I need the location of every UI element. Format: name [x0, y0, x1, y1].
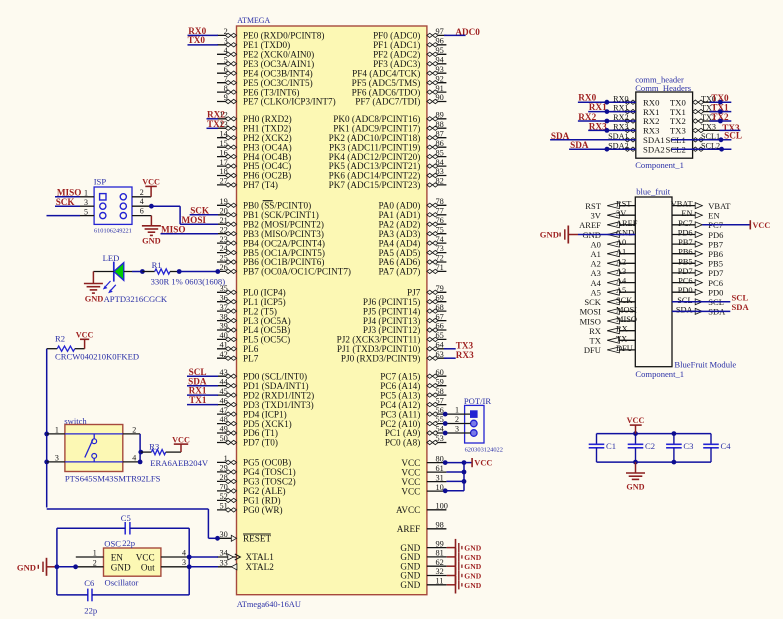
junction dot: [462, 479, 467, 484]
svg-text:98: 98: [436, 521, 444, 530]
IC U1 right pin 79 PJ7: [407, 284, 446, 298]
svg-text:C4: C4: [721, 441, 732, 451]
junction dot R3: [138, 450, 143, 455]
switch S1 PTS645SM43SMTR92LFS body: [64, 416, 160, 484]
svg-text:PE4 (OC3B/INT4): PE4 (OC3B/INT4): [243, 68, 313, 78]
svg-text:68: 68: [436, 303, 444, 312]
IC U1 right pin 63 PJ0: [341, 350, 446, 364]
svg-text:8: 8: [224, 84, 228, 93]
svg-text:ATMEGA: ATMEGA: [237, 16, 270, 25]
junction dot: [718, 109, 723, 114]
IC U1 left pin 27 PH7: [217, 177, 278, 191]
comm_header left pin RX0: [610, 94, 660, 107]
svg-text:RX2: RX2: [207, 109, 225, 119]
IC U1 ATmega640-16AU body: [237, 16, 427, 609]
ground at pin 81: [447, 548, 482, 565]
svg-text:RX: RX: [589, 326, 601, 336]
svg-text:4: 4: [140, 197, 144, 206]
IC U1 right pin 68 PJ5: [363, 303, 447, 317]
wire SCL1: [671, 139, 731, 141]
IC U1 left pin 13 PH1: [217, 120, 291, 133]
IC U1 pin 100 AVCC: [396, 502, 448, 516]
svg-text:PJ0 (RXD3/PCINT9): PJ0 (RXD3/PCINT9): [341, 353, 420, 363]
svg-text:38: 38: [220, 312, 228, 321]
svg-text:PC3 (A11): PC3 (A11): [381, 409, 421, 419]
svg-text:GND: GND: [142, 236, 161, 245]
wire reset net to pin 30: [47, 509, 218, 538]
capacitor C6 22p: [84, 578, 97, 616]
junction dot: [443, 412, 448, 417]
svg-text:TX3: TX3: [701, 123, 716, 132]
svg-text:63: 63: [436, 350, 444, 359]
IC U1 left pin 21 PB2: [217, 216, 324, 230]
comm_header left pin SDA2: [608, 141, 665, 154]
IC U1 right pin 31 VCC: [401, 473, 446, 487]
IC U1 left pin 14 PH2: [217, 129, 292, 143]
svg-text:28: 28: [220, 473, 228, 482]
IC U1 left pin 5 PE3: [217, 56, 314, 70]
junction dot: [672, 431, 677, 436]
svg-text:PD7: PD7: [708, 268, 723, 278]
svg-text:PA3 (AD3): PA3 (AD3): [379, 229, 421, 239]
svg-text:PA7 (AD7): PA7 (AD7): [379, 267, 421, 277]
junction dot: [605, 147, 610, 152]
IC U1 right pin 74 PA4: [379, 235, 447, 249]
svg-text:XTAL2: XTAL2: [246, 562, 275, 572]
junction dot pin4: [138, 460, 143, 465]
wire blue_fruit SDA: [672, 310, 730, 312]
power VCC at R3: [172, 435, 190, 452]
blue_fruit right pin PC6: [672, 277, 723, 288]
svg-text:42: 42: [220, 350, 228, 359]
svg-text:RX1: RX1: [189, 386, 207, 396]
svg-text:51: 51: [220, 502, 228, 511]
IC U1 left pin 9 PE7: [217, 93, 336, 107]
wire to XTAL2: [189, 566, 218, 568]
svg-text:44: 44: [220, 377, 229, 386]
svg-text:25: 25: [220, 254, 228, 263]
IC U1 left pin 29 PG4: [217, 464, 296, 478]
capacitor C4: [703, 434, 731, 463]
wire SDA to pin 44: [187, 385, 218, 387]
wire pin 64 TX3: [444, 348, 456, 350]
IC U1 pin 30 RESET: [217, 530, 271, 544]
wire SCK to pin 20: [190, 214, 218, 216]
capacitor C1: [589, 434, 616, 463]
svg-text:46: 46: [220, 396, 228, 405]
svg-text:VCC: VCC: [627, 416, 645, 425]
wire TX0 to pin 3: [188, 44, 219, 46]
IC U1 left pin 25 PB6: [217, 254, 324, 268]
net label MOSI at pin 21: [182, 215, 207, 225]
comm_header right pin TX0: [670, 94, 720, 107]
svg-text:SCK: SCK: [56, 197, 76, 207]
svg-text:72: 72: [436, 254, 444, 263]
IC U1 pin 62 GND: [400, 558, 446, 572]
svg-text:PD4 (ICP1): PD4 (ICP1): [243, 409, 287, 419]
power VCC at caps: [627, 416, 645, 433]
wire SDA1: [550, 139, 636, 141]
capacitor C5 22p: [121, 513, 135, 548]
ISP pin 2 stub: [132, 188, 151, 197]
blue_fruit right pin VBAT: [671, 200, 732, 211]
svg-text:96: 96: [436, 37, 444, 46]
blue_fruit right pin SCL: [672, 296, 724, 307]
svg-text:RX1: RX1: [589, 102, 607, 112]
comm_header right pin TX1: [670, 104, 720, 117]
svg-text:95: 95: [436, 46, 444, 55]
svg-text:29: 29: [220, 464, 228, 473]
blue_fruit left pin SCK: [584, 296, 635, 307]
svg-text:9: 9: [224, 93, 228, 102]
svg-text:70: 70: [220, 483, 228, 492]
svg-text:PE2 (XCK0/AIN0): PE2 (XCK0/AIN0): [243, 50, 314, 60]
svg-text:VCC: VCC: [474, 459, 492, 468]
svg-text:64: 64: [436, 341, 445, 350]
svg-text:PK7 (ADC15/PCINT23): PK7 (ADC15/PCINT23): [329, 180, 421, 190]
svg-text:330R 1% 0603(1608): 330R 1% 0603(1608): [151, 276, 226, 286]
svg-text:83: 83: [436, 167, 444, 176]
wire TX1 to pin 46: [187, 404, 218, 406]
svg-text:PE7 (CLKO/ICP3/INT7): PE7 (CLKO/ICP3/INT7): [243, 97, 336, 107]
svg-text:PK3 (ADC11/PCINT19): PK3 (ADC11/PCINT19): [329, 142, 420, 152]
wire RX2: [578, 120, 636, 122]
svg-text:14: 14: [220, 129, 229, 138]
svg-text:3: 3: [55, 454, 59, 463]
svg-text:PG4 (TOSC1): PG4 (TOSC1): [243, 467, 296, 477]
svg-text:79: 79: [436, 284, 444, 293]
svg-text:PB1 (SCK/PCINT1): PB1 (SCK/PCINT1): [243, 210, 319, 220]
svg-text:30: 30: [220, 530, 228, 539]
blue_fruit left pin A3: [591, 267, 636, 278]
comm_header left pin SDA1: [608, 132, 665, 145]
svg-text:GND: GND: [17, 562, 36, 572]
svg-text:PD0 (SCL/INT0): PD0 (SCL/INT0): [243, 371, 307, 381]
svg-text:85: 85: [436, 148, 444, 157]
IC U1 right pin 69 PJ6: [363, 293, 447, 307]
IC U1 right pin 88 PK1: [333, 120, 446, 133]
wire VCC pin 61: [446, 471, 464, 473]
svg-text:94: 94: [436, 56, 445, 65]
svg-text:93: 93: [436, 65, 444, 74]
svg-text:PL2 (T5): PL2 (T5): [243, 306, 277, 316]
svg-text:2: 2: [132, 426, 136, 435]
junction dot: [443, 488, 448, 493]
svg-text:SCL: SCL: [189, 367, 207, 377]
svg-text:PD7 (T0): PD7 (T0): [243, 438, 278, 448]
switch pin 4 stub: [123, 454, 140, 463]
ISP pin 6 stub: [132, 207, 151, 216]
svg-text:3: 3: [455, 425, 459, 434]
comm_header right pin TX3: [670, 123, 720, 136]
svg-text:71: 71: [436, 263, 444, 272]
blue_fruit left pin TX: [590, 334, 636, 345]
junction dot: [719, 147, 724, 152]
blue_fruit left pin GND: [582, 229, 635, 240]
wire to XTAL1: [189, 556, 218, 558]
wire RX0: [578, 101, 636, 103]
svg-text:PC0 (A8): PC0 (A8): [385, 438, 420, 448]
svg-text:A0: A0: [616, 238, 626, 247]
svg-text:SDA2: SDA2: [643, 144, 665, 154]
svg-text:TX2: TX2: [207, 119, 225, 129]
svg-text:A2: A2: [591, 259, 601, 269]
svg-text:AREF: AREF: [397, 524, 421, 534]
IC U1 left pin 8 PE6: [217, 84, 299, 98]
IC U1 right pin 64 PJ1: [337, 341, 447, 355]
IC U1 left pin 50 PD7: [217, 434, 278, 448]
blue_fruit left pin AREF: [579, 219, 638, 230]
svg-text:17: 17: [220, 158, 228, 167]
wire ISP pin3: [55, 205, 80, 207]
junction dot osc pin3: [187, 564, 192, 569]
svg-text:VCC: VCC: [142, 178, 160, 187]
oscillator X1 body: [104, 539, 161, 588]
IC U1 right pin 65 PJ2: [337, 331, 447, 345]
wire gnd to osc pin2: [57, 566, 76, 568]
IC U1 left pin 20 PB1: [217, 206, 319, 220]
svg-text:RESET: RESET: [243, 534, 271, 544]
svg-text:PA1 (AD1): PA1 (AD1): [379, 210, 421, 220]
IC U1 right pin 97 PF0: [373, 27, 446, 41]
svg-text:PD6 (T1): PD6 (T1): [243, 428, 278, 438]
svg-text:MOSI: MOSI: [616, 305, 637, 314]
svg-text:A1: A1: [591, 249, 601, 259]
IC U1 right pin 54 PC1: [385, 425, 447, 439]
wire SDA2: [569, 148, 636, 150]
net label RX0: [578, 93, 596, 103]
svg-text:TX0: TX0: [188, 35, 206, 45]
svg-text:19: 19: [220, 197, 228, 206]
svg-text:GND: GND: [111, 562, 131, 572]
power VCC at R2: [76, 331, 94, 349]
ground at ISP pin6: [142, 216, 161, 246]
svg-text:4: 4: [132, 454, 136, 463]
svg-text:69: 69: [436, 293, 444, 302]
svg-text:VCC: VCC: [401, 467, 420, 477]
oscillator pin 3 stub: [161, 558, 189, 567]
net label SDA: [570, 140, 589, 150]
svg-text:81: 81: [436, 549, 444, 558]
svg-text:1: 1: [455, 406, 459, 415]
wire pin 54 to POT 3: [446, 425, 470, 434]
wire blue_fruit SCL: [672, 301, 730, 303]
svg-text:ATmega640-16AU: ATmega640-16AU: [237, 600, 301, 609]
comm_header right pin SCL2: [666, 141, 721, 154]
svg-text:78: 78: [436, 197, 444, 206]
svg-text:SCL: SCL: [677, 296, 692, 305]
svg-text:58: 58: [436, 387, 444, 396]
svg-text:PE1 (TXD0): PE1 (TXD0): [243, 40, 290, 50]
oscillator pin 2 stub: [76, 558, 104, 567]
IC U1 pin 98 AREF: [397, 521, 447, 535]
svg-text:PC6: PC6: [678, 277, 692, 286]
svg-text:PK5 (ADC13/PCINT21): PK5 (ADC13/PCINT21): [329, 161, 421, 171]
wire pin 56 to POT 1: [446, 406, 470, 415]
wire LED anode: [124, 271, 143, 273]
svg-text:80: 80: [436, 454, 444, 463]
svg-text:PC1 (A9): PC1 (A9): [385, 428, 420, 438]
svg-text:PD2 (RXD1/INT2): PD2 (RXD1/INT2): [243, 390, 314, 400]
comm_header left pin RX2: [610, 113, 660, 126]
IC U1 right pin 95 PF2: [373, 46, 446, 60]
svg-text:86: 86: [436, 139, 444, 148]
IC U1 right pin 57 PC4: [380, 396, 446, 410]
svg-text:82: 82: [436, 177, 444, 186]
net label RX0: [188, 26, 206, 36]
wire blue_fruit PC7 to VCC: [702, 224, 750, 226]
svg-text:A5: A5: [616, 286, 626, 295]
svg-text:5: 5: [224, 56, 228, 65]
switch pin 1 stub: [47, 426, 65, 435]
svg-text:PB5: PB5: [708, 259, 723, 269]
svg-text:53: 53: [436, 434, 444, 443]
svg-text:84: 84: [436, 158, 445, 167]
svg-text:24: 24: [220, 244, 229, 253]
svg-text:RST: RST: [585, 201, 601, 211]
svg-text:PF2 (ADC2): PF2 (ADC2): [373, 50, 420, 60]
svg-text:PC4 (A12): PC4 (A12): [380, 400, 420, 410]
svg-text:A4: A4: [616, 277, 627, 286]
blue_fruit left pin 3V: [591, 209, 636, 220]
svg-text:PC7: PC7: [678, 219, 692, 228]
ISP pin 3 stub: [80, 198, 94, 207]
svg-text:A0: A0: [591, 239, 601, 249]
IC U1 right pin 93 PF4: [352, 65, 446, 79]
svg-text:A2: A2: [616, 257, 626, 266]
svg-text:3: 3: [182, 558, 186, 567]
ISP pin 4 stub: [132, 197, 151, 206]
svg-text:21: 21: [220, 216, 228, 225]
IC U1 right pin 84 PK5: [329, 158, 447, 171]
IC U1 left pin 37 PL2: [217, 303, 277, 317]
wire switch pin2 to pin4: [139, 434, 141, 462]
capacitor C3: [666, 434, 693, 463]
svg-text:40: 40: [220, 331, 228, 340]
svg-text:VCC: VCC: [76, 331, 94, 340]
svg-text:PH7 (T4): PH7 (T4): [243, 180, 278, 190]
net label RX3: [456, 350, 474, 360]
svg-text:52: 52: [220, 492, 228, 501]
junction dot: [605, 128, 610, 133]
net label ADC0: [455, 27, 480, 37]
svg-text:PL7: PL7: [243, 353, 259, 363]
svg-text:VCC: VCC: [401, 458, 420, 468]
wire VCC pin 10: [446, 490, 464, 492]
blue_fruit right pin PD6: [672, 229, 723, 240]
svg-text:PK1 (ADC9/PCINT17): PK1 (ADC9/PCINT17): [333, 123, 420, 133]
svg-text:620303124022: 620303124022: [465, 446, 503, 453]
IC U1 right pin 92 PF5: [352, 74, 447, 88]
svg-text:50: 50: [220, 434, 228, 443]
svg-text:ISP: ISP: [94, 176, 107, 186]
svg-text:PD3 (TXD1/INT3): PD3 (TXD1/INT3): [243, 400, 314, 410]
blue_fruit left pin RX: [589, 325, 635, 336]
junction dot: [633, 431, 638, 436]
junction dot ISP pin4: [149, 204, 154, 209]
svg-text:PB6: PB6: [678, 248, 692, 257]
blue_fruit left pin A0: [591, 238, 636, 249]
junction dot: [672, 460, 677, 465]
svg-text:RX0: RX0: [578, 93, 596, 103]
svg-text:1: 1: [93, 549, 97, 558]
svg-text:Component_1: Component_1: [635, 369, 684, 379]
svg-text:MISO: MISO: [580, 316, 601, 326]
junction dot: [719, 137, 724, 142]
wire osc loop bottom: [57, 594, 189, 596]
IC U1 left pin 15 PH3: [217, 139, 292, 153]
ISP pin 5 stub: [80, 207, 94, 216]
IC U1 right pin 87 PK2: [329, 129, 447, 143]
svg-text:3: 3: [224, 37, 228, 46]
svg-text:PD0: PD0: [678, 286, 693, 295]
svg-text:A5: A5: [591, 288, 601, 298]
ground at LED cathode: [84, 272, 114, 304]
svg-text:2: 2: [455, 415, 459, 424]
net label TX0: [188, 35, 206, 45]
IC U1 pin 11 GND: [400, 577, 446, 591]
junction dot at pin 30: [215, 536, 220, 541]
svg-text:6: 6: [140, 207, 144, 216]
blue_fruit left pin A4: [591, 277, 636, 288]
wire R1 to pin 26: [179, 271, 218, 273]
power VCC at PC7: [750, 220, 770, 230]
svg-text:26: 26: [220, 263, 228, 272]
junction dot: [443, 460, 448, 465]
IC U1 right pin 61 VCC: [401, 464, 446, 478]
svg-text:56: 56: [436, 406, 444, 415]
svg-text:PB7: PB7: [708, 239, 723, 249]
IC U1 pin 33 XTAL2: [217, 559, 274, 573]
IC U1 right pin 76 PA2: [379, 216, 447, 230]
IC U1 left pin 49 PD6: [217, 425, 278, 439]
svg-text:Component_1: Component_1: [635, 160, 684, 170]
comm_header left pin RX3: [610, 123, 660, 136]
svg-text:MISO: MISO: [57, 187, 82, 197]
IC U1 left pin 40 PL5: [217, 331, 290, 345]
svg-text:2: 2: [93, 558, 97, 567]
svg-text:3V: 3V: [591, 211, 602, 221]
svg-text:SDA: SDA: [732, 302, 750, 312]
svg-text:89: 89: [436, 111, 444, 120]
svg-text:55: 55: [436, 415, 444, 424]
blue_fruit left pin A5: [591, 286, 636, 297]
junction dot: [605, 100, 610, 105]
IC U1 left pin 3 PE1: [217, 37, 290, 51]
IC U1 left pin 7 PE5: [217, 74, 313, 88]
IC U1 right pin 80 VCC: [401, 454, 446, 468]
svg-text:PB5: PB5: [678, 257, 692, 266]
wire osc loop right: [188, 528, 190, 595]
svg-text:32: 32: [436, 567, 444, 576]
power VCC at bus: [464, 458, 492, 468]
svg-text:27: 27: [220, 177, 228, 186]
wire ISP pin4 to MOSI: [151, 206, 218, 224]
svg-text:610106249221: 610106249221: [94, 227, 132, 234]
IC U1 left pin 44 PD1: [217, 377, 309, 391]
wire TX1: [709, 111, 731, 113]
net label SCK at ISP pin3: [56, 197, 76, 207]
IC U1 left pin 16 PH4: [217, 148, 291, 162]
svg-text:A3: A3: [616, 267, 626, 276]
svg-text:47: 47: [220, 406, 228, 415]
IC U1 left pin 51 PG0: [217, 502, 283, 515]
wire SCL to pin 43: [187, 375, 218, 377]
svg-text:ERA6AEB204V: ERA6AEB204V: [150, 458, 209, 468]
svg-text:C1: C1: [606, 441, 616, 451]
svg-text:GND: GND: [464, 581, 481, 590]
net label MISO at pin 22: [161, 224, 186, 234]
